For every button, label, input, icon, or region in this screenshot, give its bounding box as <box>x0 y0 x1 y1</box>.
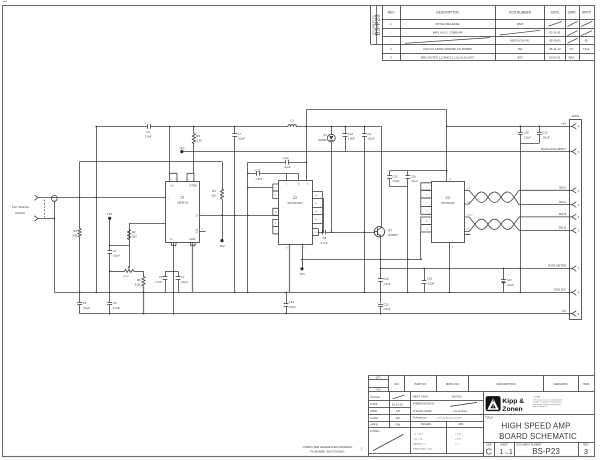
svg-text:2N3905: 2N3905 <box>388 233 398 237</box>
svg-text:- NO -: - NO - <box>375 388 382 392</box>
svg-text:1.5uF: 1.5uF <box>383 307 390 311</box>
svg-text:SCALE: SCALE <box>370 395 379 399</box>
svg-text:BS-P23: BS-P23 <box>532 447 560 456</box>
svg-text:Q1: Q1 <box>388 228 392 232</box>
svg-text:380 A: 380 A <box>559 200 566 204</box>
svg-text:LM361N: LM361N <box>177 200 188 204</box>
svg-text:SHEET: SHEET <box>500 444 509 447</box>
svg-text:C2: C2 <box>181 275 185 279</box>
svg-text:DATE: DATE <box>551 11 560 15</box>
svg-text:= 0.13: = 0.13 <box>455 434 462 436</box>
svg-text:.01uF: .01uF <box>83 306 90 310</box>
svg-text:DESCRIPTION: DESCRIPTION <box>496 382 515 386</box>
svg-text:UM: UM <box>394 382 399 386</box>
svg-text:C18: C18 <box>427 277 433 281</box>
svg-text:= 1°: = 1° <box>455 444 459 446</box>
svg-text:02-03-11: 02-03-11 <box>549 55 561 59</box>
svg-text:INITIAL RELEASE: INITIAL RELEASE <box>436 22 460 26</box>
svg-text:HIGH SPEED AMP: HIGH SPEED AMP <box>502 422 571 431</box>
svg-text:DCN NUMBER: DCN NUMBER <box>509 11 532 15</box>
svg-text:382 B: 382 B <box>559 226 566 230</box>
svg-text:R5: R5 <box>196 134 200 138</box>
svg-text:BOARD SCHEMATIC: BOARD SCHEMATIC <box>499 432 577 441</box>
svg-text:C10: C10 <box>542 131 548 135</box>
svg-text:-V: -V <box>170 237 173 241</box>
svg-text:F.M. SIGNAL: F.M. SIGNAL <box>12 205 30 209</box>
svg-text:05-30-91: 05-30-91 <box>549 38 561 42</box>
svg-text:TKLL: TKLL <box>583 47 590 51</box>
svg-text:.01uF: .01uF <box>507 283 514 287</box>
svg-text:TP2: TP2 <box>219 244 225 248</box>
svg-text:CHG D1 FROM 2N3638A TO 2N5909: CHG D1 FROM 2N3638A TO 2N5909 <box>423 47 472 51</box>
svg-text:.01uF: .01uF <box>113 254 120 258</box>
svg-text:DW: DW <box>396 422 401 426</box>
svg-text:C17: C17 <box>507 278 513 282</box>
svg-text:DWN: DWN <box>370 409 377 413</box>
svg-text:L3: L3 <box>290 119 294 123</box>
svg-text:MM: MM <box>459 422 464 426</box>
svg-text:.01uF: .01uF <box>283 165 290 169</box>
svg-text:02-11-91: 02-11-91 <box>549 30 561 34</box>
svg-text:Kipp & Zonen Inc.: Kipp & Zonen Inc. <box>533 406 548 408</box>
svg-text:1.5uF: 1.5uF <box>113 306 120 310</box>
svg-text:C8: C8 <box>323 236 327 240</box>
svg-text:.01uF: .01uF <box>367 137 374 141</box>
svg-text:APPD: APPD <box>582 11 592 15</box>
svg-text:.xxx = .01: .xxx = .01 <box>414 439 424 441</box>
svg-text:C20: C20 <box>524 131 530 135</box>
svg-text:© 1996: © 1996 <box>533 395 541 398</box>
svg-text:STRB: STRB <box>189 183 196 187</box>
svg-text:.01uF: .01uF <box>542 135 549 139</box>
svg-text:.01uF: .01uF <box>289 305 296 309</box>
svg-text:= 0.25: = 0.25 <box>455 439 462 441</box>
svg-text:KL: KL <box>585 38 589 42</box>
svg-text:-6V: -6V <box>562 309 566 313</box>
svg-text:382 B: 382 B <box>559 212 566 216</box>
svg-text:R1 1K: R1 1K <box>123 276 130 278</box>
svg-text:-: - <box>391 30 392 34</box>
svg-text:C19: C19 <box>383 277 389 281</box>
svg-text:C12: C12 <box>283 156 289 160</box>
svg-text:RAF: RAF <box>569 55 575 59</box>
svg-text:GND (5V): GND (5V) <box>554 288 566 292</box>
svg-text:Z3: Z3 <box>446 196 450 200</box>
svg-text:GND: GND <box>190 237 196 241</box>
svg-text:C13: C13 <box>348 132 354 136</box>
svg-text:1.5uF: 1.5uF <box>255 177 262 181</box>
svg-text:1.5uF: 1.5uF <box>392 179 399 183</box>
svg-text:(COAX): (COAX) <box>15 211 26 215</box>
svg-text:96-11-12: 96-11-12 <box>549 47 561 51</box>
svg-text:Tolerances: Tolerances <box>413 416 427 420</box>
svg-text:J1R06: J1R06 <box>572 114 580 118</box>
svg-text:.01uF: .01uF <box>427 281 434 285</box>
svg-text:WAS A.E.G. C3899-R4: WAS A.E.G. C3899-R4 <box>433 30 463 34</box>
svg-text:TITLE: TITLE <box>485 415 493 419</box>
svg-text:REV: REV <box>388 11 396 15</box>
svg-text:C21: C21 <box>383 302 389 306</box>
svg-text:BS-P23: BS-P23 <box>375 14 382 36</box>
svg-text:FILENAME: BS-P23.DWG: FILENAME: BS-P23.DWG <box>311 449 346 453</box>
svg-text:1.5uF: 1.5uF <box>145 135 152 139</box>
svg-text:C4: C4 <box>146 130 150 134</box>
svg-text:.01uF: .01uF <box>411 179 418 183</box>
svg-text:D: D <box>196 214 198 218</box>
svg-text:C14: C14 <box>289 300 295 304</box>
svg-text:.01uF: .01uF <box>238 137 245 141</box>
svg-text:FRACTIONS = 1/64: FRACTIONS = 1/64 <box>414 448 433 451</box>
svg-text:Z1: Z1 <box>180 195 184 199</box>
svg-text:unless otherwise specified: unless otherwise specified <box>437 416 462 419</box>
svg-text:REV: REV <box>584 444 589 447</box>
svg-text:8003-DCN-241: 8003-DCN-241 <box>510 38 530 42</box>
svg-text:DWN: DWN <box>568 11 576 15</box>
svg-text:D1: D1 <box>323 133 327 137</box>
svg-text:RMV NOTES 1,2 AND L1,L2,L4,L5,: RMV NOTES 1,2 AND L1,L2,L4,L5,L6,R7 <box>421 55 475 59</box>
svg-text:3: 3 <box>584 447 588 456</box>
svg-text:TP4: TP4 <box>299 272 305 276</box>
svg-text:WC: WC <box>396 416 401 420</box>
svg-text:COMPUTER GENERATED DRAWING: COMPUTER GENERATED DRAWING <box>303 445 354 449</box>
svg-text:3823: 3823 <box>517 22 524 26</box>
svg-text:R2: R2 <box>132 230 136 234</box>
svg-text:.01uF: .01uF <box>181 280 188 284</box>
svg-text:MFR's NO: MFR's NO <box>446 382 460 386</box>
svg-text:+V: +V <box>170 183 174 187</box>
svg-text:QTY: QTY <box>376 376 382 380</box>
svg-text:R3: R3 <box>212 189 216 193</box>
svg-text:SN75114N: SN75114N <box>441 201 454 205</box>
svg-text:4.7uF: 4.7uF <box>320 241 327 245</box>
svg-text:INCHES: INCHES <box>421 422 432 426</box>
svg-text:BS-P23: BS-P23 <box>452 395 462 399</box>
svg-text:2: 2 <box>361 447 363 451</box>
svg-text:FINISH: FINISH <box>370 429 379 433</box>
svg-text:380 A: 380 A <box>559 186 566 190</box>
svg-text:CHKD: CHKD <box>370 416 378 420</box>
svg-text:1.5uF: 1.5uF <box>348 137 355 141</box>
svg-text:C15: C15 <box>392 174 398 178</box>
svg-text:REMARKS: REMARKS <box>554 382 568 386</box>
svg-text:C6: C6 <box>113 301 117 305</box>
svg-text:3.3K: 3.3K <box>196 139 202 143</box>
svg-text:1N4099: 1N4099 <box>318 139 327 142</box>
svg-text:NEXT ASSY: NEXT ASSY <box>413 395 429 399</box>
svg-text:DESCRIPTION: DESCRIPTION <box>436 11 459 15</box>
svg-text:Kipp &: Kipp & <box>502 398 524 405</box>
svg-text:ITEM: ITEM <box>583 382 590 386</box>
svg-text:3.9K: 3.9K <box>135 283 141 287</box>
svg-text:TP3: TP3 <box>179 146 185 150</box>
svg-text:1.5uF: 1.5uF <box>155 280 162 284</box>
svg-text:Z2: Z2 <box>293 196 297 200</box>
svg-text:843: 843 <box>518 55 523 59</box>
svg-text:1: 1 <box>509 449 513 456</box>
svg-text:MAIN GATE RESET: MAIN GATE RESET <box>541 147 567 151</box>
svg-text:FV: FV <box>570 47 574 51</box>
svg-text:IF DUAL DIMS:: IF DUAL DIMS: <box>413 409 432 413</box>
svg-text:C7: C7 <box>238 132 242 136</box>
svg-text:ANGLES = 1°: ANGLES = 1° <box>414 443 427 446</box>
svg-text:14,15: 14,15 <box>467 214 473 216</box>
svg-text:RATE METER: RATE METER <box>548 264 566 268</box>
svg-text:-: - <box>168 196 169 200</box>
svg-text:C: C <box>486 446 492 456</box>
svg-text:+5V: +5V <box>561 121 566 125</box>
svg-text:1.5uF: 1.5uF <box>524 135 531 139</box>
svg-text:Zonen: Zonen <box>502 406 522 413</box>
svg-text:PART NO: PART NO <box>414 382 427 386</box>
svg-text:C1: C1 <box>113 249 117 253</box>
svg-text:1: 1 <box>500 449 504 456</box>
svg-text:TP1: TP1 <box>107 212 113 216</box>
svg-text:C9: C9 <box>367 132 371 136</box>
svg-text:DIMENSIONS IN: DIMENSIONS IN <box>413 401 434 405</box>
svg-text:61 12-30: 61 12-30 <box>392 402 403 406</box>
svg-text:200: 200 <box>72 234 77 238</box>
svg-text:1.5uF: 1.5uF <box>383 282 390 286</box>
svg-text:200: 200 <box>132 235 137 239</box>
svg-text:of: of <box>505 451 508 455</box>
svg-text:C16: C16 <box>411 174 417 178</box>
svg-text:R4: R4 <box>73 229 77 233</box>
svg-text:C5: C5 <box>83 301 87 305</box>
svg-text:mm-(inches): mm-(inches) <box>453 409 468 413</box>
svg-text:R6: R6 <box>137 278 141 282</box>
svg-text:FB: FB <box>396 409 400 413</box>
svg-text:.xx = .005: .xx = .005 <box>414 434 424 436</box>
svg-text:APPD: APPD <box>370 422 378 426</box>
svg-text:792: 792 <box>518 47 523 51</box>
svg-text:-: - <box>391 38 392 42</box>
svg-text:220: 220 <box>211 194 216 198</box>
svg-text:DATE: DATE <box>370 402 377 406</box>
svg-text:SN74S112N: SN74S112N <box>287 201 302 205</box>
svg-text:C11: C11 <box>256 169 261 173</box>
